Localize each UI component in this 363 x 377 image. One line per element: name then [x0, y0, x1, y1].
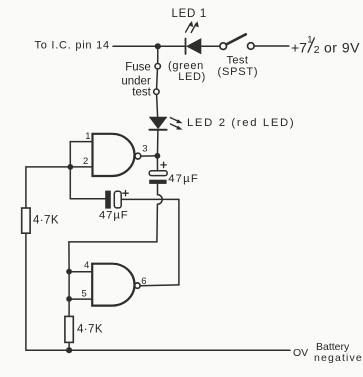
wire: input to junction	[113, 45, 156, 47]
svg-text:4: 4	[84, 260, 89, 271]
wire: pin 6 to feedback	[140, 284, 179, 287]
wire: pin 4	[69, 271, 92, 273]
svg-text:(SPST): (SPST)	[218, 66, 259, 78]
node: pin 4 tie	[66, 269, 72, 275]
wire: rail to R2	[68, 299, 70, 317]
capacitor C1 negative plate	[149, 180, 166, 184]
wire: 0V bottom rail	[26, 349, 290, 351]
LED2 emission arrow a	[170, 118, 182, 124]
svg-text:47µF: 47µF	[168, 173, 199, 185]
svg-text:negative: negative	[314, 352, 363, 364]
fuse clip top terminal	[155, 63, 160, 68]
wire: junction to LED1	[158, 45, 185, 47]
LED1 emission arrow b	[191, 21, 199, 32]
wire: link to pin 4 rail	[69, 241, 157, 243]
svg-text:47µF: 47µF	[99, 209, 129, 221]
svg-text:6: 6	[141, 276, 146, 287]
gate B NAND body	[92, 264, 134, 306]
svg-text:(green: (green	[168, 60, 204, 72]
LED2 emission arrow b	[170, 124, 182, 130]
svg-text:LED 1: LED 1	[172, 8, 207, 20]
gate A output bubble	[135, 153, 141, 159]
wire: C2 left lead	[70, 198, 105, 200]
wire: left sub-rail pins 1-2 to C2	[69, 142, 71, 199]
capacitor C1 top lead	[156, 156, 158, 171]
svg-text:LED): LED)	[178, 71, 206, 83]
wire: R1 top lead	[25, 167, 27, 208]
wire: pin 5	[69, 298, 92, 300]
LED1 emission arrow a	[186, 21, 194, 32]
wire: LED2 to gate A output node	[157, 131, 159, 154]
node: top junction	[155, 43, 161, 49]
svg-text:LED 2 (red LED): LED 2 (red LED)	[187, 117, 295, 129]
label Fuse under test	[121, 62, 151, 99]
node: pin 2 tie	[67, 164, 73, 170]
LED1 cathode bar	[185, 39, 187, 55]
resistor R1 4.7K body	[22, 208, 30, 233]
fraction slash of 7 1/2	[308, 38, 314, 52]
node: gate A output junction	[155, 153, 161, 159]
capacitor C2 plus sign	[123, 191, 128, 196]
svg-text:2: 2	[83, 156, 88, 167]
svg-text:Fuse: Fuse	[125, 62, 151, 74]
fuse clip bottom terminal	[154, 89, 159, 94]
resistor R2 4.7K body	[65, 316, 73, 342]
wire: LED1 to switch	[201, 45, 220, 47]
wire: rail pin4 to pin5	[68, 272, 70, 299]
svg-text:2: 2	[314, 44, 320, 56]
svg-text:or 9V: or 9V	[324, 39, 360, 55]
capacitor C1 plus sign	[161, 162, 166, 167]
svg-text:OV: OV	[293, 347, 308, 359]
node: pin 5 tie	[66, 296, 72, 302]
svg-text:4·7K: 4·7K	[77, 324, 103, 336]
switch lever	[226, 34, 245, 44]
capacitor C1 positive plate	[149, 171, 167, 176]
gate B output bubble	[135, 283, 140, 288]
switch Test (SPST): pole contact	[220, 43, 227, 50]
capacitor C2 positive plate	[114, 191, 121, 208]
node: R2 0V junction	[66, 347, 72, 353]
wire: switch to supply	[254, 45, 288, 47]
wire: pin 2 row from R1 rail to gate	[26, 166, 93, 168]
switch throw contact	[248, 43, 255, 50]
wire: R2 to 0V rail	[68, 342, 70, 350]
wire: pin 1	[70, 141, 92, 143]
capacitor C2 negative plate	[105, 191, 111, 209]
svg-text:To I.C. pin 14: To I.C. pin 14	[35, 39, 110, 51]
wire: fuse to LED2	[157, 95, 158, 117]
svg-text:4·7K: 4·7K	[33, 215, 59, 227]
wire: junction down to fuse clip	[157, 46, 159, 63]
svg-text:5: 5	[82, 289, 87, 300]
svg-text:test: test	[132, 86, 151, 98]
LED 1 (green) diode triangle	[187, 39, 201, 54]
LED 2 (red) diode triangle	[150, 117, 167, 128]
fuse element under test	[156, 69, 159, 89]
label +7 1/2 or 9V	[291, 35, 360, 57]
wire: C1 to crossover hop	[157, 184, 162, 242]
svg-text:Test: Test	[227, 55, 249, 67]
svg-text:+7: +7	[291, 40, 307, 56]
wire: R1 bottom lead to 0V rail	[25, 233, 27, 350]
gate A NAND body	[93, 134, 135, 176]
wire: C2 right lead	[121, 198, 179, 200]
wire: feedback vertical from C2 to pin 6	[178, 199, 180, 285]
svg-text:3: 3	[142, 143, 147, 154]
wire: gate A output to node	[141, 155, 155, 157]
LED2 cathode bar	[149, 129, 166, 131]
svg-text:1: 1	[85, 131, 90, 142]
